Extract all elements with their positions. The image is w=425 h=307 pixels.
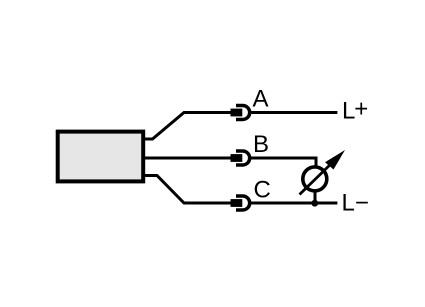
meter (adjustable indicator) circle <box>303 167 327 191</box>
svg-text:A: A <box>253 86 269 113</box>
svg-text:C: C <box>254 177 271 204</box>
wire C to L- <box>250 202 338 205</box>
connector C socket <box>236 196 250 210</box>
junction dot <box>311 200 318 207</box>
wire A from box to connector <box>145 113 231 140</box>
meter adjustment arrowhead <box>325 150 345 170</box>
meter adjustment arrow shaft <box>300 159 337 195</box>
wire meter to L- line <box>314 191 317 203</box>
svg-text:+: + <box>354 96 368 123</box>
connector B socket <box>236 151 250 165</box>
connector A plug <box>231 109 243 117</box>
wire B to meter <box>250 158 317 167</box>
wire B from box to connector <box>145 157 231 160</box>
wire A to L+ <box>250 111 338 114</box>
connector A socket <box>236 106 250 120</box>
svg-text:B: B <box>253 131 269 158</box>
wire C from box to connector <box>145 176 231 204</box>
connector C plug <box>231 199 243 207</box>
connector B plug <box>231 154 243 162</box>
device box <box>58 132 144 182</box>
svg-text:L−: L− <box>342 190 369 217</box>
